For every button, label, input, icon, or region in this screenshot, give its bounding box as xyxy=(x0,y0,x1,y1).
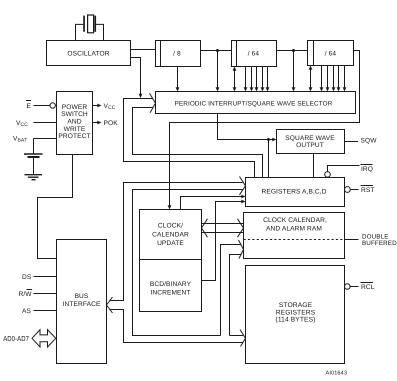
svg-text:AI01643: AI01643 xyxy=(326,371,348,377)
svg-text:CLOCK CALENDAR,: CLOCK CALENDAR, xyxy=(263,217,327,224)
svg-text:(114 BYTES): (114 BYTES) xyxy=(276,317,316,324)
svg-text:VCC: VCC xyxy=(104,103,116,111)
hollow arrowhead into selector xyxy=(150,93,156,112)
wire junction C down to registers xyxy=(268,140,270,178)
fat bus arrowhead into alarm ram right xyxy=(238,219,244,237)
input E wire and bubble xyxy=(34,105,51,107)
bus corridor trunk inner boundary xyxy=(133,190,244,336)
power switch box xyxy=(57,92,93,155)
svg-text:CLOCK/: CLOCK/ xyxy=(158,223,183,230)
RCL bubble and wire xyxy=(345,284,351,290)
svg-text:SQUARE WAVE: SQUARE WAVE xyxy=(285,135,335,142)
bus corridor registers to selector inner boundary xyxy=(133,108,263,178)
svg-text:WRITE: WRITE xyxy=(64,126,86,133)
svg-text:E: E xyxy=(27,103,32,110)
svg-text:REGISTERS A,B,C,D: REGISTERS A,B,C,D xyxy=(261,189,326,196)
input Vcc wire xyxy=(34,122,57,124)
svg-text:RST: RST xyxy=(361,187,375,194)
bidirectional wire /64 first to selector xyxy=(234,70,236,89)
hollow arrowhead into storage registers xyxy=(240,330,246,347)
fat bus arrowhead into update xyxy=(202,219,208,237)
input Vbat wire xyxy=(34,138,57,140)
crystal X1 right plate xyxy=(94,16,96,32)
svg-text:UPDATE: UPDATE xyxy=(157,240,184,247)
bus corridor stub to ram right boundary xyxy=(230,255,242,336)
wire junction B down to selector xyxy=(293,51,295,89)
wire bcd increment to registers xyxy=(202,202,242,281)
hollow arrowhead into bus interface xyxy=(107,297,113,313)
svg-text:INCREMENT: INCREMENT xyxy=(150,289,190,296)
svg-text:SWITCH: SWITCH xyxy=(61,111,88,118)
IRQ bubble and wire xyxy=(325,172,331,178)
svg-text:OUTPUT: OUTPUT xyxy=(296,142,324,149)
divider /64 second box xyxy=(308,41,354,66)
hollow arrowhead into alarm ram xyxy=(239,240,244,259)
crystal X1 body xyxy=(88,15,94,33)
crystal X1 left plate xyxy=(83,16,85,32)
clock calendar update and bcd binary increment outer box xyxy=(140,210,202,312)
five tap wires /64 first to selector xyxy=(246,67,268,89)
svg-text:/ 8: / 8 xyxy=(173,51,181,58)
svg-text:AS: AS xyxy=(22,308,31,315)
bus interface box xyxy=(57,240,107,364)
wire square wave output to registers xyxy=(313,154,315,178)
RST bubble and wire xyxy=(345,187,351,193)
svg-text:RCL: RCL xyxy=(361,284,375,291)
five tap wires /64 second to selector xyxy=(322,66,345,89)
svg-text:DS: DS xyxy=(22,274,32,281)
svg-text:IRQ: IRQ xyxy=(361,166,373,173)
wire selector to square wave output xyxy=(218,114,273,140)
crystal X1 leads xyxy=(76,24,104,40)
svg-text:PERIODIC INTERRUPT/SQUARE WAVE: PERIODIC INTERRUPT/SQUARE WAVE SELECTOR xyxy=(175,100,333,107)
svg-text:AD0-AD7: AD0-AD7 xyxy=(3,334,29,343)
junction dot C xyxy=(267,138,270,141)
svg-text:BUFFERED: BUFFERED xyxy=(362,240,397,247)
svg-text:/ 64: / 64 xyxy=(325,51,337,58)
svg-text:BCD/BINARY: BCD/BINARY xyxy=(150,281,192,288)
input R/W wire xyxy=(34,293,57,295)
ground xyxy=(25,174,43,175)
svg-text:OSCILLATOR: OSCILLATOR xyxy=(67,51,109,58)
svg-text:AND ALARM RAM: AND ALARM RAM xyxy=(266,225,322,232)
svg-text:REGISTERS: REGISTERS xyxy=(276,309,316,316)
svg-text:/ 64: / 64 xyxy=(248,51,260,58)
wire /8 to /64 xyxy=(201,50,232,52)
divider /8 box xyxy=(156,41,201,67)
svg-text:PROTECT: PROTECT xyxy=(58,133,90,140)
wire oscillator to /8 xyxy=(131,49,156,51)
svg-text:CALENDAR: CALENDAR xyxy=(152,231,189,238)
bus corridor trunk outer boundary upper xyxy=(110,183,243,301)
wire SQW label xyxy=(345,141,359,143)
svg-text:BUS: BUS xyxy=(75,293,89,300)
clock calendar and alarm ram box xyxy=(244,213,345,259)
bus corridor trunk outer boundary lower xyxy=(110,310,243,343)
svg-text:POK: POK xyxy=(104,120,119,127)
svg-text:VCC: VCC xyxy=(16,120,28,128)
svg-text:STORAGE: STORAGE xyxy=(279,302,313,309)
wire update to registers xyxy=(181,197,242,210)
wire /64 to /64 xyxy=(277,50,308,52)
dashed double-buffer divider xyxy=(244,239,345,241)
periodic interrupt square wave selector box xyxy=(156,92,356,114)
bus corridor stub to ram left boundary xyxy=(221,245,242,336)
bus corridor registers to selector outer boundary xyxy=(124,99,255,178)
svg-text:AND: AND xyxy=(67,119,81,126)
wire power switch to bus interface xyxy=(38,155,73,259)
output Vcc wire with arrow xyxy=(93,105,99,107)
svg-text:SQW: SQW xyxy=(361,138,378,145)
wire junction A down to selector xyxy=(217,51,219,89)
junction dot A xyxy=(216,49,219,52)
output POK wire with arrow xyxy=(93,122,99,124)
storage registers box xyxy=(246,266,345,364)
svg-text:R/W: R/W xyxy=(19,291,33,298)
svg-text:INTERFACE: INTERFACE xyxy=(63,301,101,308)
square wave output box xyxy=(277,130,345,154)
hollow arrowhead into registers xyxy=(240,177,246,195)
svg-text:VBAT: VBAT xyxy=(13,136,27,144)
oscillator box xyxy=(47,41,131,66)
bidirectional wire /64 second to selector xyxy=(310,69,312,89)
divider /64 first box xyxy=(232,41,277,67)
input AS wire xyxy=(34,310,57,312)
AD0-AD7 fat double arrow xyxy=(32,330,56,347)
input DS wire xyxy=(34,276,57,278)
battery B1 xyxy=(33,139,35,154)
wire /8 down to selector xyxy=(177,67,179,89)
registers ABCD box xyxy=(246,178,345,207)
junction dot B xyxy=(292,49,295,52)
fat double headed bus arrow update to ram boundaries xyxy=(202,224,243,233)
wire oscillator second output down to selector bus arrow xyxy=(131,58,141,95)
svg-text:POWER: POWER xyxy=(62,104,88,111)
wire /64 second output to clock calendar update xyxy=(170,51,360,207)
